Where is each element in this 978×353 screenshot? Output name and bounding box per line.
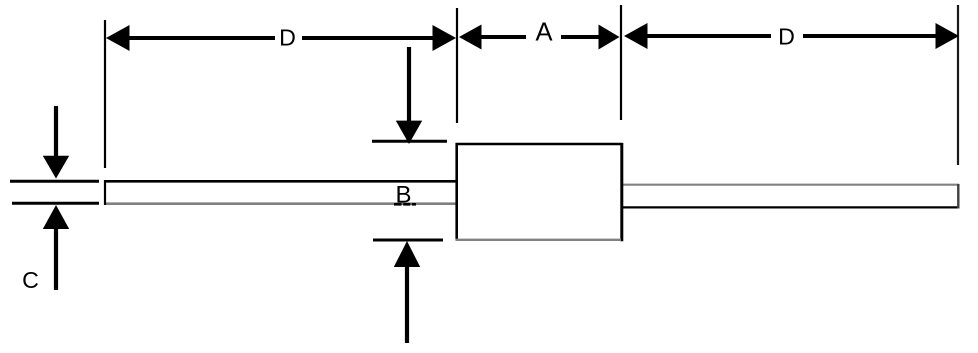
extension line right (x=958) <box>957 5 959 165</box>
dimension B: upper tick line <box>372 140 447 143</box>
svg-text:A: A <box>535 19 552 47</box>
dimension C: lower tick line <box>12 202 99 205</box>
dimension B: upper arrow shaft <box>407 47 411 123</box>
dimension B: lower arrow shaft <box>405 265 409 343</box>
extension line left (x=105) <box>104 20 106 168</box>
dimension C: upper tick line <box>10 180 99 183</box>
dimension D left: arrow pointing left <box>106 25 130 51</box>
dimension B: lower tick line <box>373 239 443 242</box>
extension line mid-right (x=621) <box>620 5 622 120</box>
body (component package) <box>456 143 623 241</box>
dimension B: dashes under label <box>394 203 416 206</box>
lead left (axial wire) <box>104 180 456 205</box>
dimension A: arrow pointing left at x=457 <box>459 25 482 50</box>
dimension A: arrow pointing right at x=621 <box>599 25 620 50</box>
dimension D right: arrow pointing right <box>936 23 960 49</box>
dimension C: upper arrow shaft <box>54 106 58 158</box>
dimension B: lower arrowhead pointing up <box>394 241 420 267</box>
dimension D right: shaft right segment <box>803 34 937 38</box>
dimension D left: shaft right segment <box>302 36 434 40</box>
dimension A: shaft left segment <box>481 35 526 39</box>
dimension C: lower arrow shaft <box>54 227 58 290</box>
dimension C: lower arrowhead pointing up <box>43 205 69 229</box>
dimension A: shaft right segment <box>561 35 599 39</box>
dimension B: upper arrowhead pointing down <box>396 121 422 144</box>
dimension D right: shaft left segment <box>646 34 771 38</box>
dimension D left: shaft left segment <box>128 36 275 40</box>
dimension D right: arrow pointing left <box>624 23 648 49</box>
dimension C: upper arrowhead pointing down <box>43 156 69 179</box>
svg-text:D: D <box>778 23 795 49</box>
extension line mid-left (x=457) <box>456 8 458 123</box>
svg-text:D: D <box>279 24 296 50</box>
dimension D left: arrow pointing right <box>433 25 457 51</box>
lead right (axial wire) <box>621 184 959 209</box>
svg-text:C: C <box>22 267 39 293</box>
